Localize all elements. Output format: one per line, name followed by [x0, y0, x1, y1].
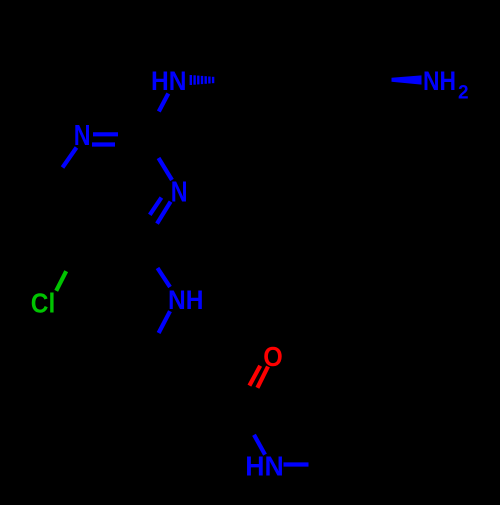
wire NH to CH2 (blue half-bond)	[159, 311, 170, 333]
svg-text:N: N	[74, 120, 91, 152]
svg-text:HN: HN	[151, 66, 187, 96]
svg-text:2: 2	[458, 83, 469, 104]
wire C2 to N3 (blue half-bond)	[159, 158, 173, 180]
solid wedge bond cyclohexane C4 to NH2 (blue half)	[392, 75, 422, 84]
wire HN to methyl CH3 (blue half-bond)	[284, 462, 309, 466]
svg-text:NH: NH	[423, 66, 456, 96]
svg-text:N: N	[171, 177, 188, 209]
double bond N1=C2 (blue halves)	[93, 132, 118, 136]
wire HN to pyrimidine C2 (blue half-bond)	[159, 94, 169, 112]
double bond C=O (red halves)	[257, 367, 268, 388]
wire amide C to HN (blue half-bond)	[254, 435, 265, 455]
hashed wedge bond HN to cyclohexane C1 stereocenter	[190, 75, 215, 85]
svg-text:Cl: Cl	[31, 288, 56, 319]
double bond N3=C4 (blue halves)	[157, 202, 171, 224]
svg-text:NH: NH	[168, 285, 204, 315]
wire N1 to C6 (blue half-bond)	[63, 148, 77, 168]
svg-text:HN: HN	[245, 450, 283, 481]
wire C4 to amide NH (blue half-bond)	[158, 268, 171, 287]
chlorine bond C5-Cl (green half)	[56, 271, 66, 291]
